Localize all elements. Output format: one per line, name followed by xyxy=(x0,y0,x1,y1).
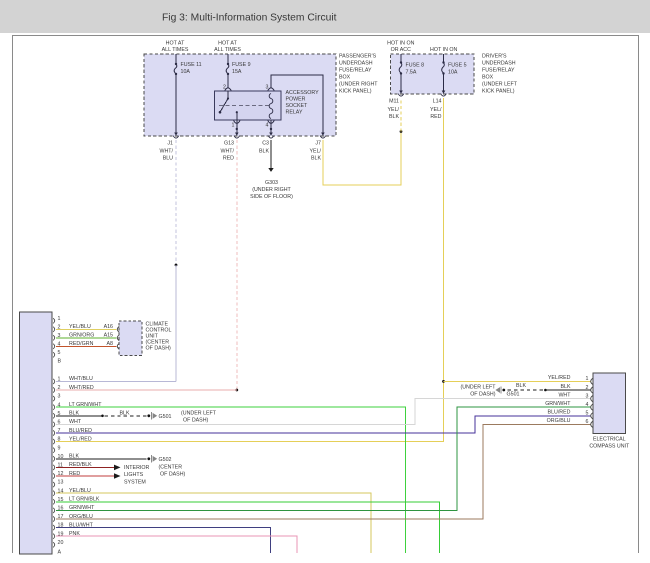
wire relay pin 4 to C3 xyxy=(270,120,272,133)
svg-text:YEL/RED: YEL/RED xyxy=(69,436,92,442)
svg-text:15A: 15A xyxy=(232,69,242,75)
connector L14 at box edge xyxy=(441,91,447,97)
passenger box label xyxy=(339,54,378,95)
wire row 16 GRN/WHT to compass pin 4 xyxy=(56,407,591,510)
wire fuse 11 to J1 xyxy=(175,74,177,133)
compass pin 5 xyxy=(586,411,593,419)
svg-text:BLK: BLK xyxy=(259,148,269,154)
svg-text:INTERIOR: INTERIOR xyxy=(124,465,149,471)
svg-text:ELECTRICAL: ELECTRICAL xyxy=(593,436,626,442)
driver box label xyxy=(482,54,518,95)
pin 2 (section B) xyxy=(53,324,60,332)
svg-text:WHT/: WHT/ xyxy=(159,148,173,154)
pin 12 (section A) xyxy=(53,471,63,479)
pin 7 (section A) xyxy=(53,428,60,436)
svg-text:FUSE/RELAY: FUSE/RELAY xyxy=(482,68,515,74)
wire YEL/RED branch to compass pin 1 xyxy=(444,380,591,382)
svg-text:ORG/BLU: ORG/BLU xyxy=(69,514,93,520)
connector M11 at box edge xyxy=(398,91,404,97)
svg-text:4: 4 xyxy=(586,402,589,408)
svg-text:10A: 10A xyxy=(181,69,191,75)
wire row 5 BLK to G501 xyxy=(56,415,147,418)
wire row 4 LT GRN/WHT xyxy=(56,407,405,553)
svg-text:OF DASH): OF DASH) xyxy=(160,471,186,477)
electrical compass unit label xyxy=(589,436,630,449)
pin 20 (section A) xyxy=(53,540,63,548)
relay pin 2 connector arc xyxy=(225,88,231,91)
svg-text:RED/BLK: RED/BLK xyxy=(69,462,92,468)
svg-text:HOT IN ON: HOT IN ON xyxy=(430,47,457,53)
svg-text:C3: C3 xyxy=(262,140,269,146)
connector M11 labels xyxy=(388,98,400,120)
header bar xyxy=(0,0,650,33)
pin 3 (section A) xyxy=(53,394,60,402)
svg-text:RELAY: RELAY xyxy=(286,109,303,115)
wire row 2 WHT/RED xyxy=(56,389,237,391)
pin 16 (section A) xyxy=(53,506,63,514)
svg-text:YEL/BLU: YEL/BLU xyxy=(69,324,91,330)
wire GRN/ORG to climate A15 xyxy=(56,337,117,339)
connector G13 at box edge xyxy=(234,133,240,139)
pin 17 (section A) xyxy=(53,514,63,522)
ground G501 (right) symbol xyxy=(495,386,505,393)
svg-text:HOT AT: HOT AT xyxy=(218,41,237,47)
wire YEL/BLU label xyxy=(69,324,113,330)
svg-text:Fig 3: Multi-Information Syste: Fig 3: Multi-Information System Circuit xyxy=(162,13,337,24)
svg-text:KICK PANEL): KICK PANEL) xyxy=(339,89,372,95)
pin 3 (section B) xyxy=(53,333,60,341)
svg-text:COMPASS UNIT: COMPASS UNIT xyxy=(589,443,630,449)
wire fuse 11 feed xyxy=(175,54,177,64)
svg-text:RED: RED xyxy=(69,471,80,477)
wire fuse 5 feed xyxy=(443,54,445,62)
fuse F8 xyxy=(399,61,402,74)
climate pin arc A16 xyxy=(117,326,119,332)
svg-text:FUSE 8: FUSE 8 xyxy=(406,63,425,69)
pin 4 (section A) xyxy=(53,402,60,410)
svg-text:HOT AT: HOT AT xyxy=(166,41,185,47)
svg-text:8: 8 xyxy=(58,437,61,443)
pin 13 (section A) xyxy=(53,480,63,488)
svg-text:M11: M11 xyxy=(389,98,399,104)
svg-text:BLU: BLU xyxy=(163,155,173,161)
wire row 15 LT GRN/BLK xyxy=(56,502,440,553)
node YEL/RED branch splice xyxy=(442,380,445,383)
wire row 17 ORG/BLU to compass pin 6 xyxy=(56,424,591,519)
svg-text:OR ACC: OR ACC xyxy=(391,47,411,53)
ground G501 (left) symbol xyxy=(147,412,157,419)
svg-text:1: 1 xyxy=(58,316,61,322)
relay pin 1 connector arc xyxy=(234,121,240,124)
wire J1 WHT/BLU dashed xyxy=(175,140,177,265)
fuse F9 xyxy=(226,63,229,75)
pin 2 (section A) xyxy=(53,385,60,393)
wire RED/GRN to climate A8 xyxy=(56,345,117,347)
label HOT AT ALL TIMES (fuse 9) xyxy=(214,41,241,53)
svg-text:BLK: BLK xyxy=(69,411,79,417)
svg-text:OF DASH): OF DASH) xyxy=(146,346,172,352)
ground G501 (left) labels xyxy=(159,410,217,423)
svg-text:PNK: PNK xyxy=(69,531,80,537)
svg-text:G502: G502 xyxy=(159,457,172,463)
accessory power socket relay box U1 xyxy=(215,91,282,120)
svg-text:BLU/WHT: BLU/WHT xyxy=(69,522,94,528)
svg-text:WHT/BLU: WHT/BLU xyxy=(69,376,93,382)
svg-text:BLU/RED: BLU/RED xyxy=(548,410,571,416)
svg-text:1: 1 xyxy=(232,123,235,129)
compass pin 3 xyxy=(586,393,593,401)
svg-text:LIGHTS: LIGHTS xyxy=(124,472,144,478)
pin 11 (section A) xyxy=(53,463,63,471)
wire compass pin 2 BLK xyxy=(506,389,591,392)
svg-text:BOX: BOX xyxy=(482,75,494,81)
fuse F8 value label xyxy=(406,63,425,76)
wire M11 YEL/BLK dashed xyxy=(400,98,402,132)
wire WHT/BLU solid xyxy=(175,265,177,381)
connector C3 at box edge xyxy=(268,133,274,139)
svg-text:ORG/BLU: ORG/BLU xyxy=(547,418,571,424)
svg-text:WHT/RED: WHT/RED xyxy=(69,385,94,391)
ground G303 xyxy=(268,168,273,172)
wire RED/GRN label xyxy=(69,341,113,347)
wire G13 WHT/RED dashed xyxy=(236,140,238,390)
svg-text:HOT IN ON: HOT IN ON xyxy=(387,40,414,46)
svg-text:BLK: BLK xyxy=(119,410,129,416)
pin 8 (section A) xyxy=(53,437,60,445)
relay pin 4 connector arc xyxy=(268,121,274,124)
wire row 18 BLU/WHT xyxy=(56,528,270,553)
wire relay pin 3 riser xyxy=(271,75,323,133)
node WHT/BLU splice xyxy=(175,264,178,267)
wire fuse 8 to M11 xyxy=(400,74,402,91)
svg-text:POWER: POWER xyxy=(286,97,306,103)
connector G13 labels xyxy=(220,140,234,161)
ground G502 labels xyxy=(159,457,186,478)
pin 1 (section A) xyxy=(53,377,60,385)
svg-text:RED: RED xyxy=(430,114,441,120)
svg-text:YEL/: YEL/ xyxy=(430,107,442,113)
svg-text:J1: J1 xyxy=(167,140,173,146)
pin 5 (section A) xyxy=(53,411,60,419)
svg-text:FUSE 5: FUSE 5 xyxy=(448,63,467,69)
svg-text:ALL TIMES: ALL TIMES xyxy=(214,47,241,53)
svg-text:A16: A16 xyxy=(104,324,113,330)
svg-text:WHT: WHT xyxy=(558,392,571,398)
climate control unit label xyxy=(146,322,172,352)
svg-text:J7: J7 xyxy=(315,140,321,146)
svg-text:BLU/RED: BLU/RED xyxy=(69,428,92,434)
climate pin arc A8 xyxy=(117,343,119,349)
wire row 10 BLK to G502 xyxy=(56,458,147,460)
fuse F11 value label xyxy=(181,62,202,75)
wire C3 BLK to ground xyxy=(270,140,272,168)
svg-text:OF DASH): OF DASH) xyxy=(183,417,209,423)
svg-text:A: A xyxy=(58,549,62,555)
svg-text:YEL/BLU: YEL/BLU xyxy=(69,488,91,494)
svg-text:RED: RED xyxy=(223,155,234,161)
svg-text:(UNDER LEFT: (UNDER LEFT xyxy=(460,385,496,391)
svg-text:FUSE/RELAY: FUSE/RELAY xyxy=(339,68,372,74)
pin 6 (section A) xyxy=(53,420,60,428)
wire row 6 WHT to compass pin 3 xyxy=(56,399,591,425)
wire GRN/ORG label xyxy=(69,333,113,339)
wire fuse 9 to relay pin 2 xyxy=(227,74,229,88)
svg-text:2: 2 xyxy=(223,84,226,90)
svg-text:G13: G13 xyxy=(224,140,234,146)
svg-text:13: 13 xyxy=(58,480,64,486)
svg-text:GRN/WHT: GRN/WHT xyxy=(69,505,95,511)
compass pin 6 xyxy=(586,419,593,427)
ground G303 labels xyxy=(250,180,293,200)
wire row 14 YEL/BLU xyxy=(56,493,371,553)
pin 18 (section A) xyxy=(53,523,63,531)
wire row 19 PNK xyxy=(56,536,297,553)
svg-text:1: 1 xyxy=(586,376,589,382)
svg-text:7.5A: 7.5A xyxy=(406,70,417,76)
svg-text:(CENTER: (CENTER xyxy=(159,464,183,470)
svg-text:UNDERDASH: UNDERDASH xyxy=(339,61,373,67)
svg-text:GRN/WHT: GRN/WHT xyxy=(545,401,571,407)
connector J1 labels xyxy=(159,140,173,161)
svg-text:GRN/ORG: GRN/ORG xyxy=(69,333,94,339)
pin 14 (section A) xyxy=(53,488,63,496)
svg-text:A15: A15 xyxy=(104,333,113,339)
svg-text:SOCKET: SOCKET xyxy=(286,103,309,109)
climate control unit box xyxy=(119,321,142,355)
svg-text:YEL/RED: YEL/RED xyxy=(548,375,571,381)
connector J1 at box edge xyxy=(173,133,179,139)
pin 5 (section B) xyxy=(53,350,60,358)
ground G502 symbol xyxy=(147,455,157,462)
svg-text:DRIVER'S: DRIVER'S xyxy=(482,54,507,60)
pin 4 (section B) xyxy=(53,341,60,349)
svg-text:KICK PANEL): KICK PANEL) xyxy=(482,89,515,95)
climate pin arc A15 xyxy=(117,335,119,341)
svg-text:LT GRN/BLK: LT GRN/BLK xyxy=(69,497,100,503)
svg-text:BOX: BOX xyxy=(339,75,351,81)
svg-text:YEL/: YEL/ xyxy=(310,148,322,154)
svg-text:(UNDER RIGHT: (UNDER RIGHT xyxy=(339,82,378,88)
label HOT AT ALL TIMES (fuse 11) xyxy=(162,41,189,53)
node YEL/BLK splice xyxy=(400,130,403,133)
svg-text:3: 3 xyxy=(586,393,589,399)
pin 9 (section A) xyxy=(53,445,60,453)
label HOT IN ON OR ACC xyxy=(387,40,414,52)
svg-text:6: 6 xyxy=(586,419,589,425)
node WHT/RED splice xyxy=(235,389,238,392)
electrical compass unit box xyxy=(593,373,626,434)
fuse F9 value label xyxy=(232,62,251,75)
passenger's underdash fuse/relay box xyxy=(144,54,336,136)
pin 10 (section A) xyxy=(53,454,63,462)
pin 19 (section A) xyxy=(53,531,63,539)
wire YEL/BLU to climate A16 xyxy=(56,328,117,330)
svg-text:WHT: WHT xyxy=(69,419,82,425)
wire fuse 5 to L14 xyxy=(443,74,445,91)
pin 15 (section A) xyxy=(53,497,63,505)
svg-text:BLK: BLK xyxy=(69,454,79,460)
relay actuator dashed link xyxy=(219,104,269,106)
connector C3 labels xyxy=(259,140,269,154)
svg-text:(UNDER LEFT: (UNDER LEFT xyxy=(482,82,518,88)
compass pin 4 xyxy=(586,402,593,410)
svg-text:4: 4 xyxy=(266,123,269,129)
svg-text:UNDERDASH: UNDERDASH xyxy=(482,61,516,67)
svg-text:20: 20 xyxy=(58,540,64,546)
wire row 12 RED to interior lights xyxy=(56,473,121,479)
fuse F5 value label xyxy=(448,63,467,76)
wire L14 YEL/RED main run xyxy=(56,98,444,442)
ground G501 (right) labels xyxy=(460,385,519,398)
wire row 1 WHT/BLU xyxy=(56,380,176,382)
svg-text:ACCESSORY: ACCESSORY xyxy=(286,90,320,96)
interior lights system label xyxy=(124,465,149,486)
wire row 11 RED/BLK to interior lights xyxy=(56,465,121,471)
svg-text:G303: G303 xyxy=(265,180,278,186)
svg-text:B: B xyxy=(58,358,62,364)
svg-text:SYSTEM: SYSTEM xyxy=(124,480,146,486)
svg-text:9: 9 xyxy=(58,445,61,451)
svg-text:5: 5 xyxy=(586,411,589,417)
driver's underdash fuse/relay box xyxy=(391,54,475,94)
svg-text:G501: G501 xyxy=(159,414,172,420)
svg-text:PASSENGER'S: PASSENGER'S xyxy=(339,54,377,60)
svg-text:RED/GRN: RED/GRN xyxy=(69,341,94,347)
relay switch arm xyxy=(219,91,229,113)
relay pin 3 connector arc xyxy=(268,88,274,91)
svg-text:A8: A8 xyxy=(107,341,114,347)
wire row 7 BLU/RED to compass pin 5 xyxy=(56,416,591,433)
svg-text:BLK: BLK xyxy=(311,155,321,161)
connector J7 labels xyxy=(310,140,322,161)
wire relay pin 1 to G13 xyxy=(236,120,238,133)
connector J7 at box edge xyxy=(320,133,326,139)
svg-text:L14: L14 xyxy=(433,98,442,104)
wire J7 YEL/BLK xyxy=(323,132,401,185)
svg-text:BLK: BLK xyxy=(389,114,399,120)
svg-text:(UNDER LEFT: (UNDER LEFT xyxy=(181,410,217,416)
svg-text:WHT/: WHT/ xyxy=(220,148,234,154)
fuse F5 xyxy=(442,61,445,74)
relay pin 1 stem xyxy=(236,111,238,120)
relay coil xyxy=(269,94,273,119)
svg-text:BLK: BLK xyxy=(560,384,570,390)
compass pin 2 xyxy=(586,385,593,393)
fuse F11 xyxy=(174,63,177,75)
svg-text:ALL TIMES: ALL TIMES xyxy=(162,47,189,53)
svg-text:G501: G501 xyxy=(507,391,520,397)
relay label xyxy=(286,90,320,115)
svg-text:FUSE 11: FUSE 11 xyxy=(181,62,202,68)
left connector body xyxy=(20,312,53,554)
compass pin 1 xyxy=(586,376,593,384)
wire fuse 8 feed xyxy=(400,54,402,62)
svg-text:10A: 10A xyxy=(448,70,458,76)
pin 1 (section B) xyxy=(53,316,60,324)
svg-text:3: 3 xyxy=(58,394,61,400)
svg-text:BLK: BLK xyxy=(516,383,526,389)
connector L14 labels xyxy=(430,98,442,120)
svg-text:LT GRN/WHT: LT GRN/WHT xyxy=(69,402,102,408)
svg-text:YEL/: YEL/ xyxy=(388,107,400,113)
svg-text:SIDE OF FLOOR): SIDE OF FLOOR) xyxy=(250,194,293,200)
wire fuse 9 feed xyxy=(227,54,229,64)
svg-text:FUSE 9: FUSE 9 xyxy=(232,62,251,68)
svg-text:OF DASH): OF DASH) xyxy=(470,391,496,397)
svg-text:5: 5 xyxy=(58,350,61,356)
svg-text:(UNDER RIGHT: (UNDER RIGHT xyxy=(252,187,291,193)
